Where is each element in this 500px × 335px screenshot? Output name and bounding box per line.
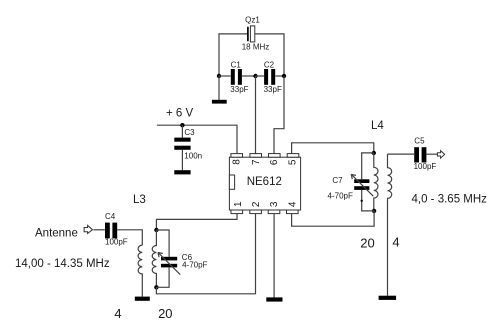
svg-text:4-70pF: 4-70pF [328, 192, 353, 201]
wire +6V rail to pin 8 [157, 125, 237, 153]
ground (L4 secondary) [379, 296, 397, 300]
svg-text:C1: C1 [231, 60, 242, 69]
wire crystal loop right [255, 34, 284, 76]
node E (L3 secondary top) [154, 228, 158, 232]
capacitor C3 [174, 138, 190, 150]
inductor L4 secondary winding [388, 154, 392, 296]
wire pin 1 to node E [156, 214, 237, 230]
svg-text:L3: L3 [133, 194, 146, 206]
svg-text:L4: L4 [371, 120, 384, 132]
antenna arrow [84, 225, 92, 233]
ground (crystal branch) [212, 100, 227, 104]
svg-text:C7: C7 [332, 176, 343, 185]
wire C7 to node H [362, 190, 374, 211]
wire node B to C2 [256, 75, 265, 77]
pin 7 [250, 154, 262, 158]
svg-text:Antenne: Antenne [35, 227, 78, 239]
svg-text:14,00 - 14.35 MHz: 14,00 - 14.35 MHz [15, 258, 110, 270]
wire node E to C6 [156, 230, 169, 257]
wire node A to ground [218, 76, 220, 100]
ground (L3 primary) [135, 297, 150, 301]
output arrow [437, 151, 444, 159]
svg-text:100pF: 100pF [105, 237, 128, 246]
wire node B to pin 7 [255, 76, 257, 154]
C7 terminal dot [361, 200, 363, 202]
svg-text:100pF: 100pF [414, 162, 437, 171]
pin 8 [231, 154, 243, 158]
capacitor C6 (trimmer) [161, 257, 177, 268]
svg-text:C3: C3 [184, 128, 195, 137]
svg-text:20: 20 [158, 306, 172, 321]
node G (L4 primary top) [372, 151, 376, 155]
wire C3 to ground [181, 150, 183, 170]
capacitor C1 [231, 69, 242, 85]
wire arrow to C4 [93, 229, 105, 231]
notch [229, 175, 234, 189]
svg-text:1: 1 [233, 201, 244, 207]
pin 6 [269, 154, 281, 158]
svg-text:4: 4 [114, 306, 121, 321]
svg-text:C4: C4 [105, 212, 116, 221]
trimmer arrow C6 [158, 252, 180, 274]
wire C4 to L3 [117, 230, 142, 245]
inductor L4 primary winding [374, 153, 378, 211]
svg-text:2: 2 [251, 201, 262, 207]
svg-text:33pF: 33pF [230, 85, 248, 94]
wire C2 to node C [275, 75, 284, 77]
ground (pin 3) [266, 297, 282, 301]
capacitor C4 [105, 223, 117, 239]
wire pin 5 to node G [292, 143, 374, 154]
node B (between C1 and C2) [253, 74, 257, 78]
svg-text:3: 3 [269, 201, 280, 207]
svg-text:+ 6 V: + 6 V [166, 107, 194, 119]
wire C6 to node F [156, 267, 169, 287]
node D (+6V / C3) [180, 123, 184, 127]
wire node A to C1 [219, 75, 231, 77]
svg-text:18 MHz: 18 MHz [242, 43, 270, 52]
wire pin 3 to ground [273, 214, 275, 298]
wire C5 to output arrow [427, 153, 438, 155]
wire node F to pin 2 [156, 214, 255, 294]
capacitor C2 [264, 69, 275, 85]
svg-text:4: 4 [392, 235, 399, 250]
svg-text:4-70pF: 4-70pF [182, 260, 207, 269]
op-amp U1 body NE612 [229, 157, 300, 210]
inductor L3 primary winding [138, 245, 142, 296]
svg-text:33pF: 33pF [264, 85, 282, 94]
svg-text:6: 6 [269, 159, 280, 165]
trimmer arrow C7 [351, 174, 373, 196]
ground (C3) [174, 170, 190, 174]
wire node G to C7 [362, 153, 374, 179]
svg-text:5: 5 [288, 159, 299, 165]
svg-text:C5: C5 [414, 137, 425, 146]
svg-text:C2: C2 [264, 60, 275, 69]
capacitor C5 [414, 147, 426, 162]
pin 4 [287, 210, 299, 214]
svg-text:100n: 100n [184, 151, 202, 160]
crystal Qz1 [248, 26, 255, 42]
svg-text:4,0 - 3.65 MHz: 4,0 - 3.65 MHz [412, 194, 488, 206]
node C (crystal right / C2) [282, 74, 286, 78]
wire C1 to node B [242, 75, 256, 77]
pin 3 [268, 210, 280, 214]
pin 1 [231, 210, 243, 214]
wire L4 to C5 [388, 153, 415, 155]
inductor L3 secondary winding [152, 230, 156, 287]
svg-text:Qz1: Qz1 [245, 15, 260, 24]
svg-text:7: 7 [251, 159, 262, 165]
svg-text:8: 8 [232, 159, 243, 165]
node H (L4 primary bottom) [372, 209, 376, 213]
wire node C to pin 6 [274, 76, 284, 154]
node F (L3 secondary bottom) [154, 285, 158, 289]
svg-text:20: 20 [360, 235, 374, 250]
wire node D to C3 [181, 125, 183, 137]
pin 5 [287, 154, 299, 158]
svg-text:4: 4 [288, 201, 299, 207]
wire crystal loop left [219, 34, 247, 76]
pin 2 [250, 210, 262, 214]
svg-text:NE612: NE612 [247, 176, 282, 188]
wire node H to pin 4 [292, 211, 375, 226]
node A (crystal left / C1) [217, 74, 221, 78]
capacitor C7 (trimmer) [354, 179, 369, 190]
